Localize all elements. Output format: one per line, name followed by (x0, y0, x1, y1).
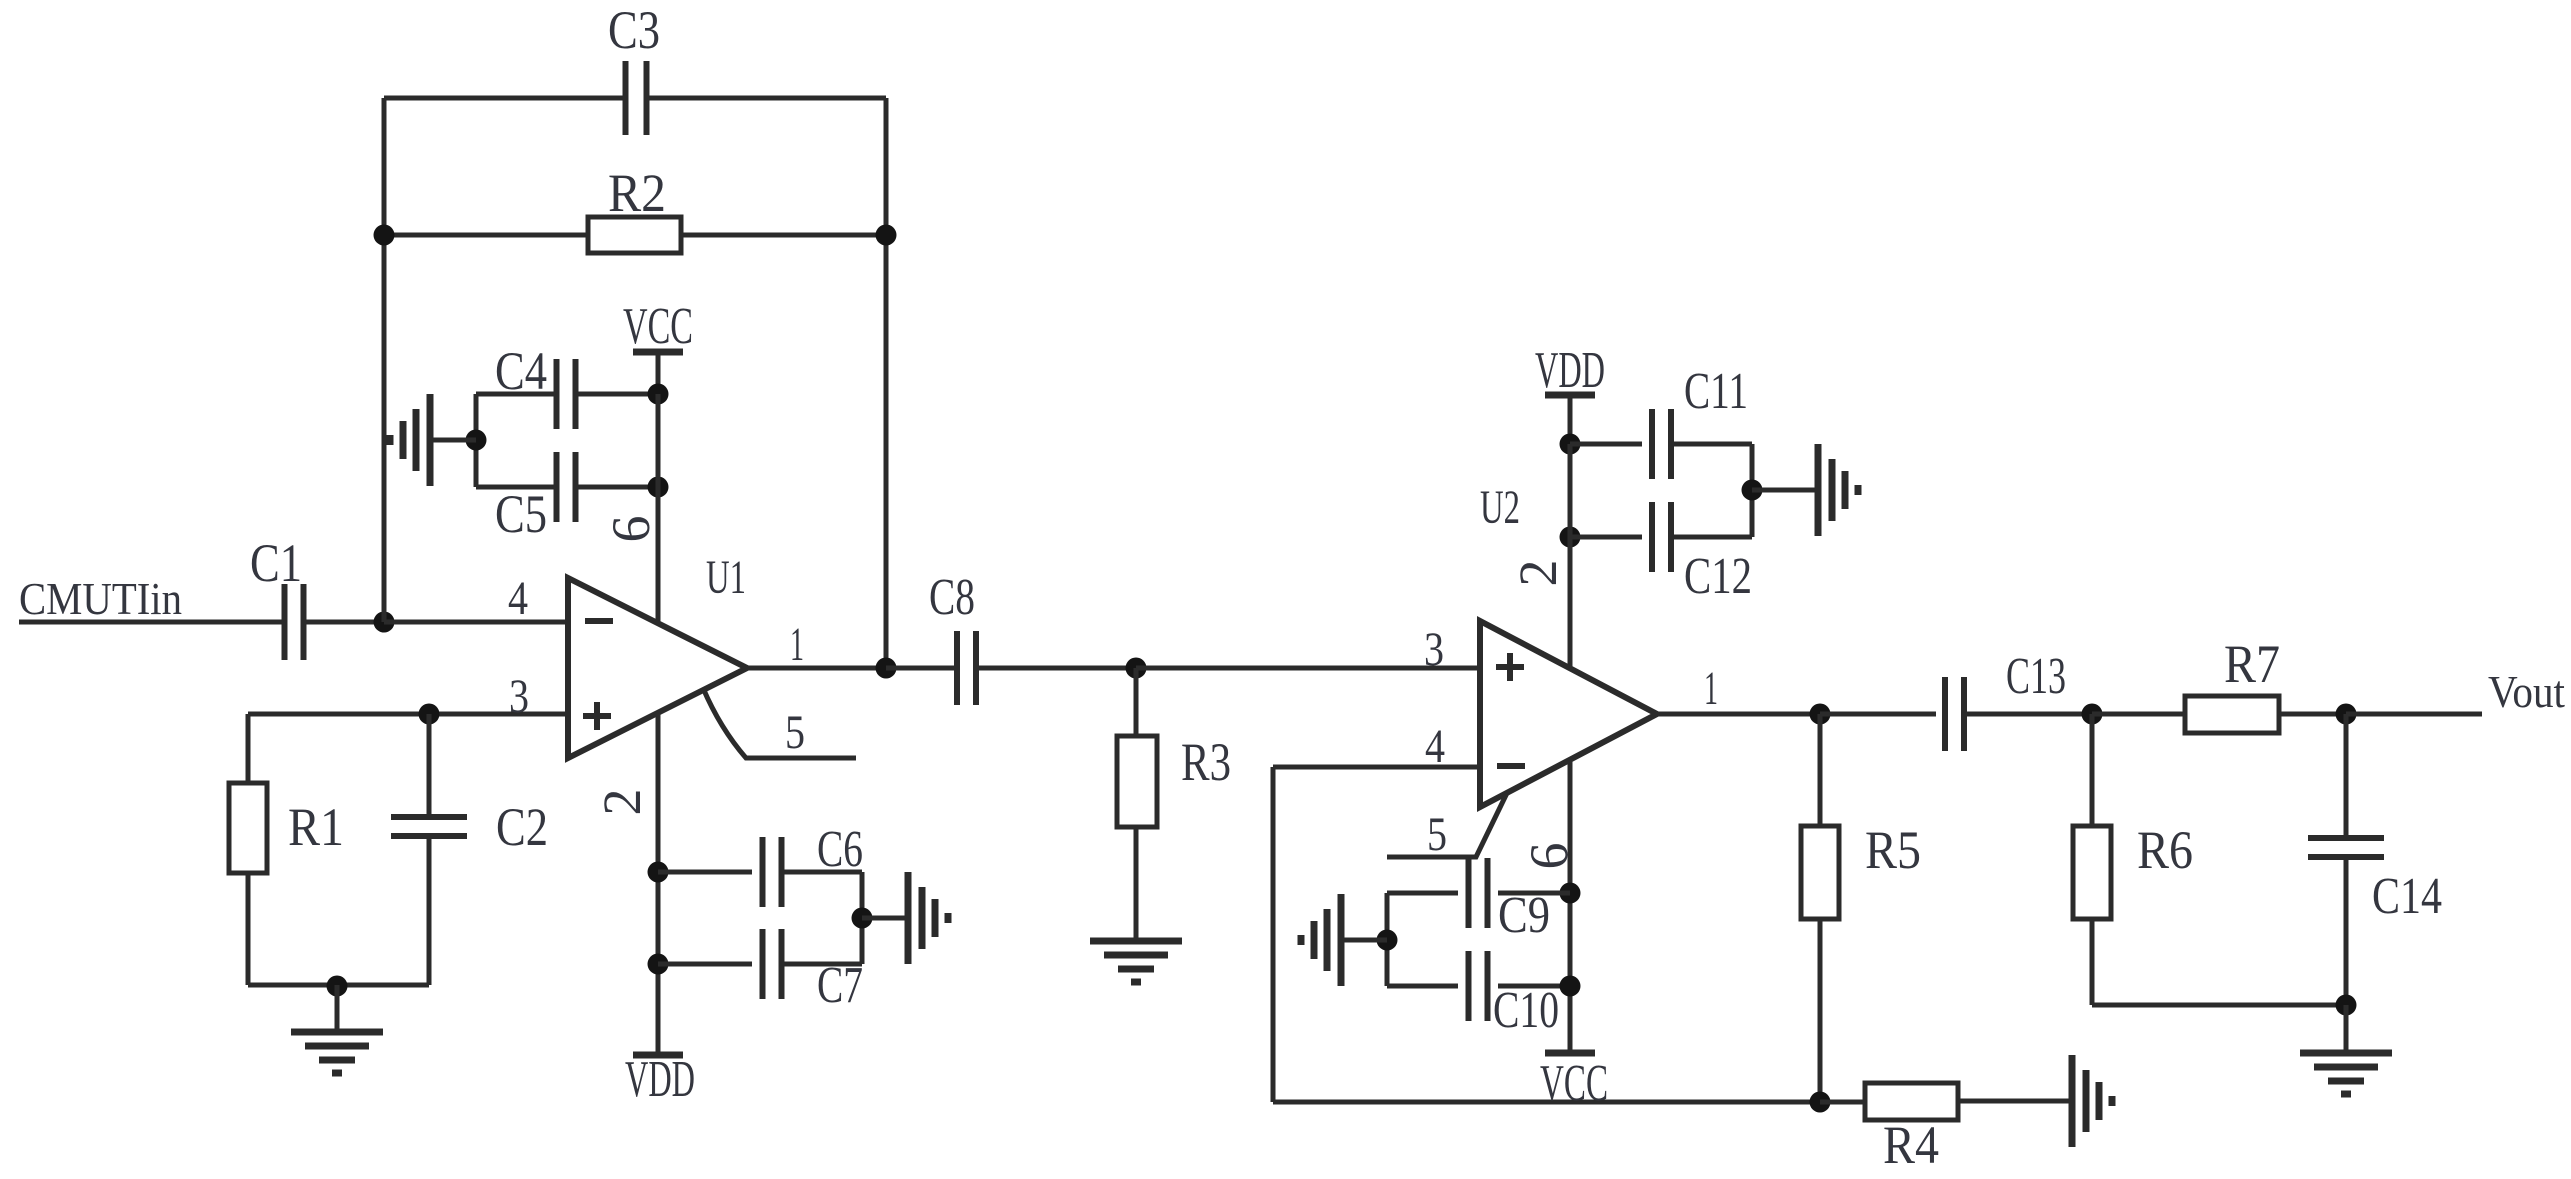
svg-text:4: 4 (508, 572, 528, 625)
node junction R1/C2 ground (327, 976, 348, 997)
wire C12 row left segment (1570, 535, 1642, 540)
svg-text:1: 1 (1704, 662, 1718, 715)
svg-text:C14: C14 (2372, 868, 2442, 925)
wire C9/C10 left vertical (1385, 893, 1390, 986)
wire feedback right vertical (C3/R2 to output) (884, 98, 889, 668)
svg-text:VCC: VCC (1540, 1055, 1608, 1112)
svg-text:C6: C6 (817, 821, 863, 878)
svg-text:C3: C3 (608, 0, 660, 60)
wire C11/C12 right vertical (1750, 444, 1755, 537)
wire U1 output to feedback junction (747, 666, 886, 671)
wire C10 row right segment (1498, 984, 1570, 989)
wire R1/C2 bottom row (248, 983, 429, 988)
wire C14 junction to Vout (2346, 712, 2482, 717)
wire U1 pin 3 row (248, 712, 568, 717)
pin 5 stub of U2 (1387, 793, 1507, 857)
wire C6 row left segment (658, 870, 752, 875)
ground at C9/C10 decoupling (1341, 938, 1387, 943)
capacitor C11 (1649, 409, 1655, 479)
node junction C2 top on pin3 row (419, 704, 440, 725)
svg-text:CMUTIin: CMUTIin (19, 573, 182, 624)
svg-text:VDD: VDD (625, 1051, 695, 1108)
svg-text:R5: R5 (1865, 820, 1921, 880)
capacitor C14 (2308, 835, 2384, 841)
node junction R5/R4 bottom (1810, 1092, 1831, 1113)
op-amp U1 (568, 578, 747, 758)
wire feedback-loop bottom row (1273, 1100, 1820, 1105)
power VCC supply for U2 (1545, 1050, 1595, 1057)
svg-text:C2: C2 (496, 797, 548, 857)
svg-text:1: 1 (790, 618, 804, 671)
wire output junction to C8 (886, 666, 957, 671)
wire C7 row right segment (783, 962, 862, 967)
svg-text:2: 2 (592, 789, 652, 816)
svg-text:C11: C11 (1684, 363, 1748, 420)
svg-text:C13: C13 (2006, 648, 2066, 705)
svg-text:R1: R1 (288, 797, 344, 857)
svg-text:C12: C12 (1684, 548, 1752, 605)
node junction C6/C7 right (852, 908, 873, 929)
capacitor C10 (1466, 951, 1472, 1021)
svg-text:U2: U2 (1480, 481, 1520, 534)
node junction C6 on pin2 wire (648, 862, 669, 883)
wire C4 row left of cap (476, 392, 556, 397)
resistor R4 (1865, 1083, 1958, 1120)
node junction C9 on pin6 wire (1560, 883, 1581, 904)
capacitor C4 (554, 359, 560, 429)
wire C3 top left segment (384, 96, 626, 101)
node junction C11/C12 right (1742, 480, 1763, 501)
wire stub to ground under C14 (2344, 1005, 2349, 1053)
wire U2 pin 4 row (1273, 765, 1480, 770)
resistor R6 (2073, 826, 2111, 919)
plus sign U2 non-inverting input (1496, 664, 1524, 670)
wire C5 row right of cap (577, 485, 658, 490)
wire C2 branch top vertical (427, 714, 432, 817)
wire R1 branch top vertical (246, 714, 251, 783)
capacitor C5 (554, 452, 560, 522)
node junction C7 on pin2 wire (648, 954, 669, 975)
node junction C9/C10 left (1377, 930, 1398, 951)
wire R6 branch top vertical (2090, 714, 2095, 826)
wire C2 branch bottom vertical (427, 836, 432, 985)
ground under R1/C2 (291, 1029, 383, 1036)
capacitor C6 (760, 837, 766, 907)
resistor R2 (588, 217, 681, 253)
wire C14 branch top vertical (2344, 714, 2349, 838)
wire junction to U1 pin 4 (384, 620, 568, 625)
capacitor C9 (1466, 858, 1472, 928)
node junction C10 on pin6 wire (1560, 976, 1581, 997)
wire C1 to inverting-input junction (303, 620, 384, 625)
ground at C4/C5 decoupling (430, 438, 476, 443)
wire C9 row right segment (1498, 891, 1570, 896)
svg-text:C10: C10 (1493, 982, 1559, 1039)
wire C12 row right segment (1671, 535, 1752, 540)
svg-text:C1: C1 (250, 533, 302, 593)
resistor R1 (229, 783, 267, 873)
svg-text:3: 3 (1424, 623, 1444, 676)
svg-text:6: 6 (601, 516, 661, 543)
node junction C5 on pin6 wire (648, 477, 669, 498)
wire U1 pin 6 vertical (656, 394, 661, 623)
wire C10 row left segment (1387, 984, 1458, 989)
wire R6 junction to R7 (2092, 712, 2185, 717)
svg-text:R7: R7 (2224, 634, 2280, 694)
capacitor C1 (282, 584, 288, 660)
svg-text:2: 2 (1508, 560, 1568, 587)
wire C4 row right of cap (577, 392, 658, 397)
wire R6 branch bottom vertical (2090, 919, 2095, 1005)
ground at C11/C12 decoupling (1752, 488, 1818, 493)
op-amp U2 (1480, 621, 1657, 807)
svg-text:C9: C9 (1498, 887, 1550, 944)
wire R5 branch bottom vertical (1818, 919, 1823, 1102)
node junction R6 top (2082, 704, 2103, 725)
svg-text:C5: C5 (495, 484, 547, 544)
ground at C6/C7 decoupling (862, 916, 908, 921)
ground under C14 (2300, 1050, 2392, 1057)
node junction R5 top (1810, 704, 1831, 725)
svg-text:VDD: VDD (1535, 342, 1605, 399)
wire R6 bottom row to C14 (2092, 1003, 2346, 1008)
wire C11 row right segment (1671, 442, 1752, 447)
wire C8 to R3 junction (976, 666, 1136, 671)
svg-text:5: 5 (785, 706, 805, 759)
resistor R3 (1117, 736, 1157, 827)
wire C13 to R6 junction (1964, 712, 2092, 717)
ground under R3 (1090, 938, 1182, 945)
capacitor C13 (1942, 677, 1948, 751)
wire C6/C7 right vertical (860, 872, 865, 964)
wire R3 junction to U2 pin 3 (1136, 666, 1480, 671)
wire junction to R4 (1820, 1100, 1865, 1105)
wire C9 row left segment (1387, 891, 1458, 896)
capacitor C3 (623, 61, 629, 135)
svg-text:4: 4 (1425, 720, 1445, 773)
wire CMUTIin input to C1 (19, 620, 285, 625)
node junction C12 on pin2 wire (1560, 527, 1581, 548)
wire R2 row right segment (681, 233, 886, 238)
svg-text:R4: R4 (1883, 1115, 1939, 1175)
capacitor C8 (954, 631, 960, 705)
node junction C4/C5 left (466, 430, 487, 451)
wire C5 row left of cap (476, 485, 556, 490)
wire C7 row left segment (658, 962, 752, 967)
capacitor C12 (1649, 502, 1655, 572)
wire R5 junction to C13 (1820, 712, 1936, 717)
svg-text:C8: C8 (929, 569, 975, 626)
node junction C14 top (2336, 704, 2357, 725)
wire VDD bar to C11 junction (1568, 395, 1573, 444)
svg-text:R3: R3 (1181, 732, 1231, 792)
svg-text:Vout: Vout (2488, 666, 2565, 717)
wire R1 branch bottom vertical (246, 873, 251, 985)
svg-text:6: 6 (1519, 843, 1579, 870)
svg-text:VCC: VCC (623, 298, 693, 355)
resistor R5 (1801, 826, 1839, 919)
node junction R2/C3 right (876, 225, 897, 246)
resistor R7 (2185, 696, 2279, 733)
wire stub to ground under R1/C2 (335, 985, 340, 1032)
wire feedback left vertical (C3/R2 to input) (382, 98, 387, 622)
ground after R4 (2069, 1055, 2076, 1147)
wire U2 output to R5 junction (1657, 712, 1820, 717)
power VDD supply for U1 (633, 1052, 683, 1059)
svg-text:R2: R2 (608, 163, 666, 223)
capacitor C7 (760, 929, 766, 999)
svg-text:U1: U1 (706, 551, 746, 604)
svg-text:R6: R6 (2137, 820, 2193, 880)
capacitor C2 (391, 814, 467, 820)
wire U2 pin 2 vertical (1568, 444, 1573, 668)
node junction R2/C3 left (374, 225, 395, 246)
wire R3 branch top vertical (1134, 668, 1139, 736)
plus sign U1 non-inverting input (583, 713, 611, 719)
wire C11 row left segment (1570, 442, 1642, 447)
minus sign U1 inverting input (585, 618, 613, 624)
wire C4/C5 left vertical (474, 394, 479, 487)
minus sign U2 inverting input (1497, 763, 1525, 769)
node junction C1/feedback/pin4 (374, 612, 395, 633)
wire U1 pin 2 vertical (656, 713, 661, 1055)
wire C3 top right segment (647, 96, 886, 101)
wire feedback-loop left vertical (1271, 767, 1276, 1102)
wire R2 row left segment (384, 233, 588, 238)
wire R4 to ground (1958, 1099, 2072, 1104)
node junction R3 top (1126, 658, 1147, 679)
wire VCC bar to C4 junction (656, 352, 661, 394)
svg-text:3: 3 (509, 670, 529, 723)
wire C6 row right segment (783, 870, 862, 875)
node junction C4 on pin6 wire (648, 384, 669, 405)
node junction C14/R6 bottom (2336, 995, 2357, 1016)
wire R3 branch bottom vertical (1134, 827, 1139, 941)
node junction C11 on pin2 wire (1560, 434, 1581, 455)
wire R7 to C14 junction (2279, 712, 2346, 717)
node junction U1 output / feedback (876, 658, 897, 679)
pin 5 stub of U1 (703, 688, 856, 758)
svg-text:5: 5 (1427, 808, 1447, 861)
wire U2 pin 6 vertical (1568, 760, 1573, 1053)
wire R5 branch top vertical (1818, 714, 1823, 826)
wire C14 branch bottom vertical (2344, 857, 2349, 1005)
